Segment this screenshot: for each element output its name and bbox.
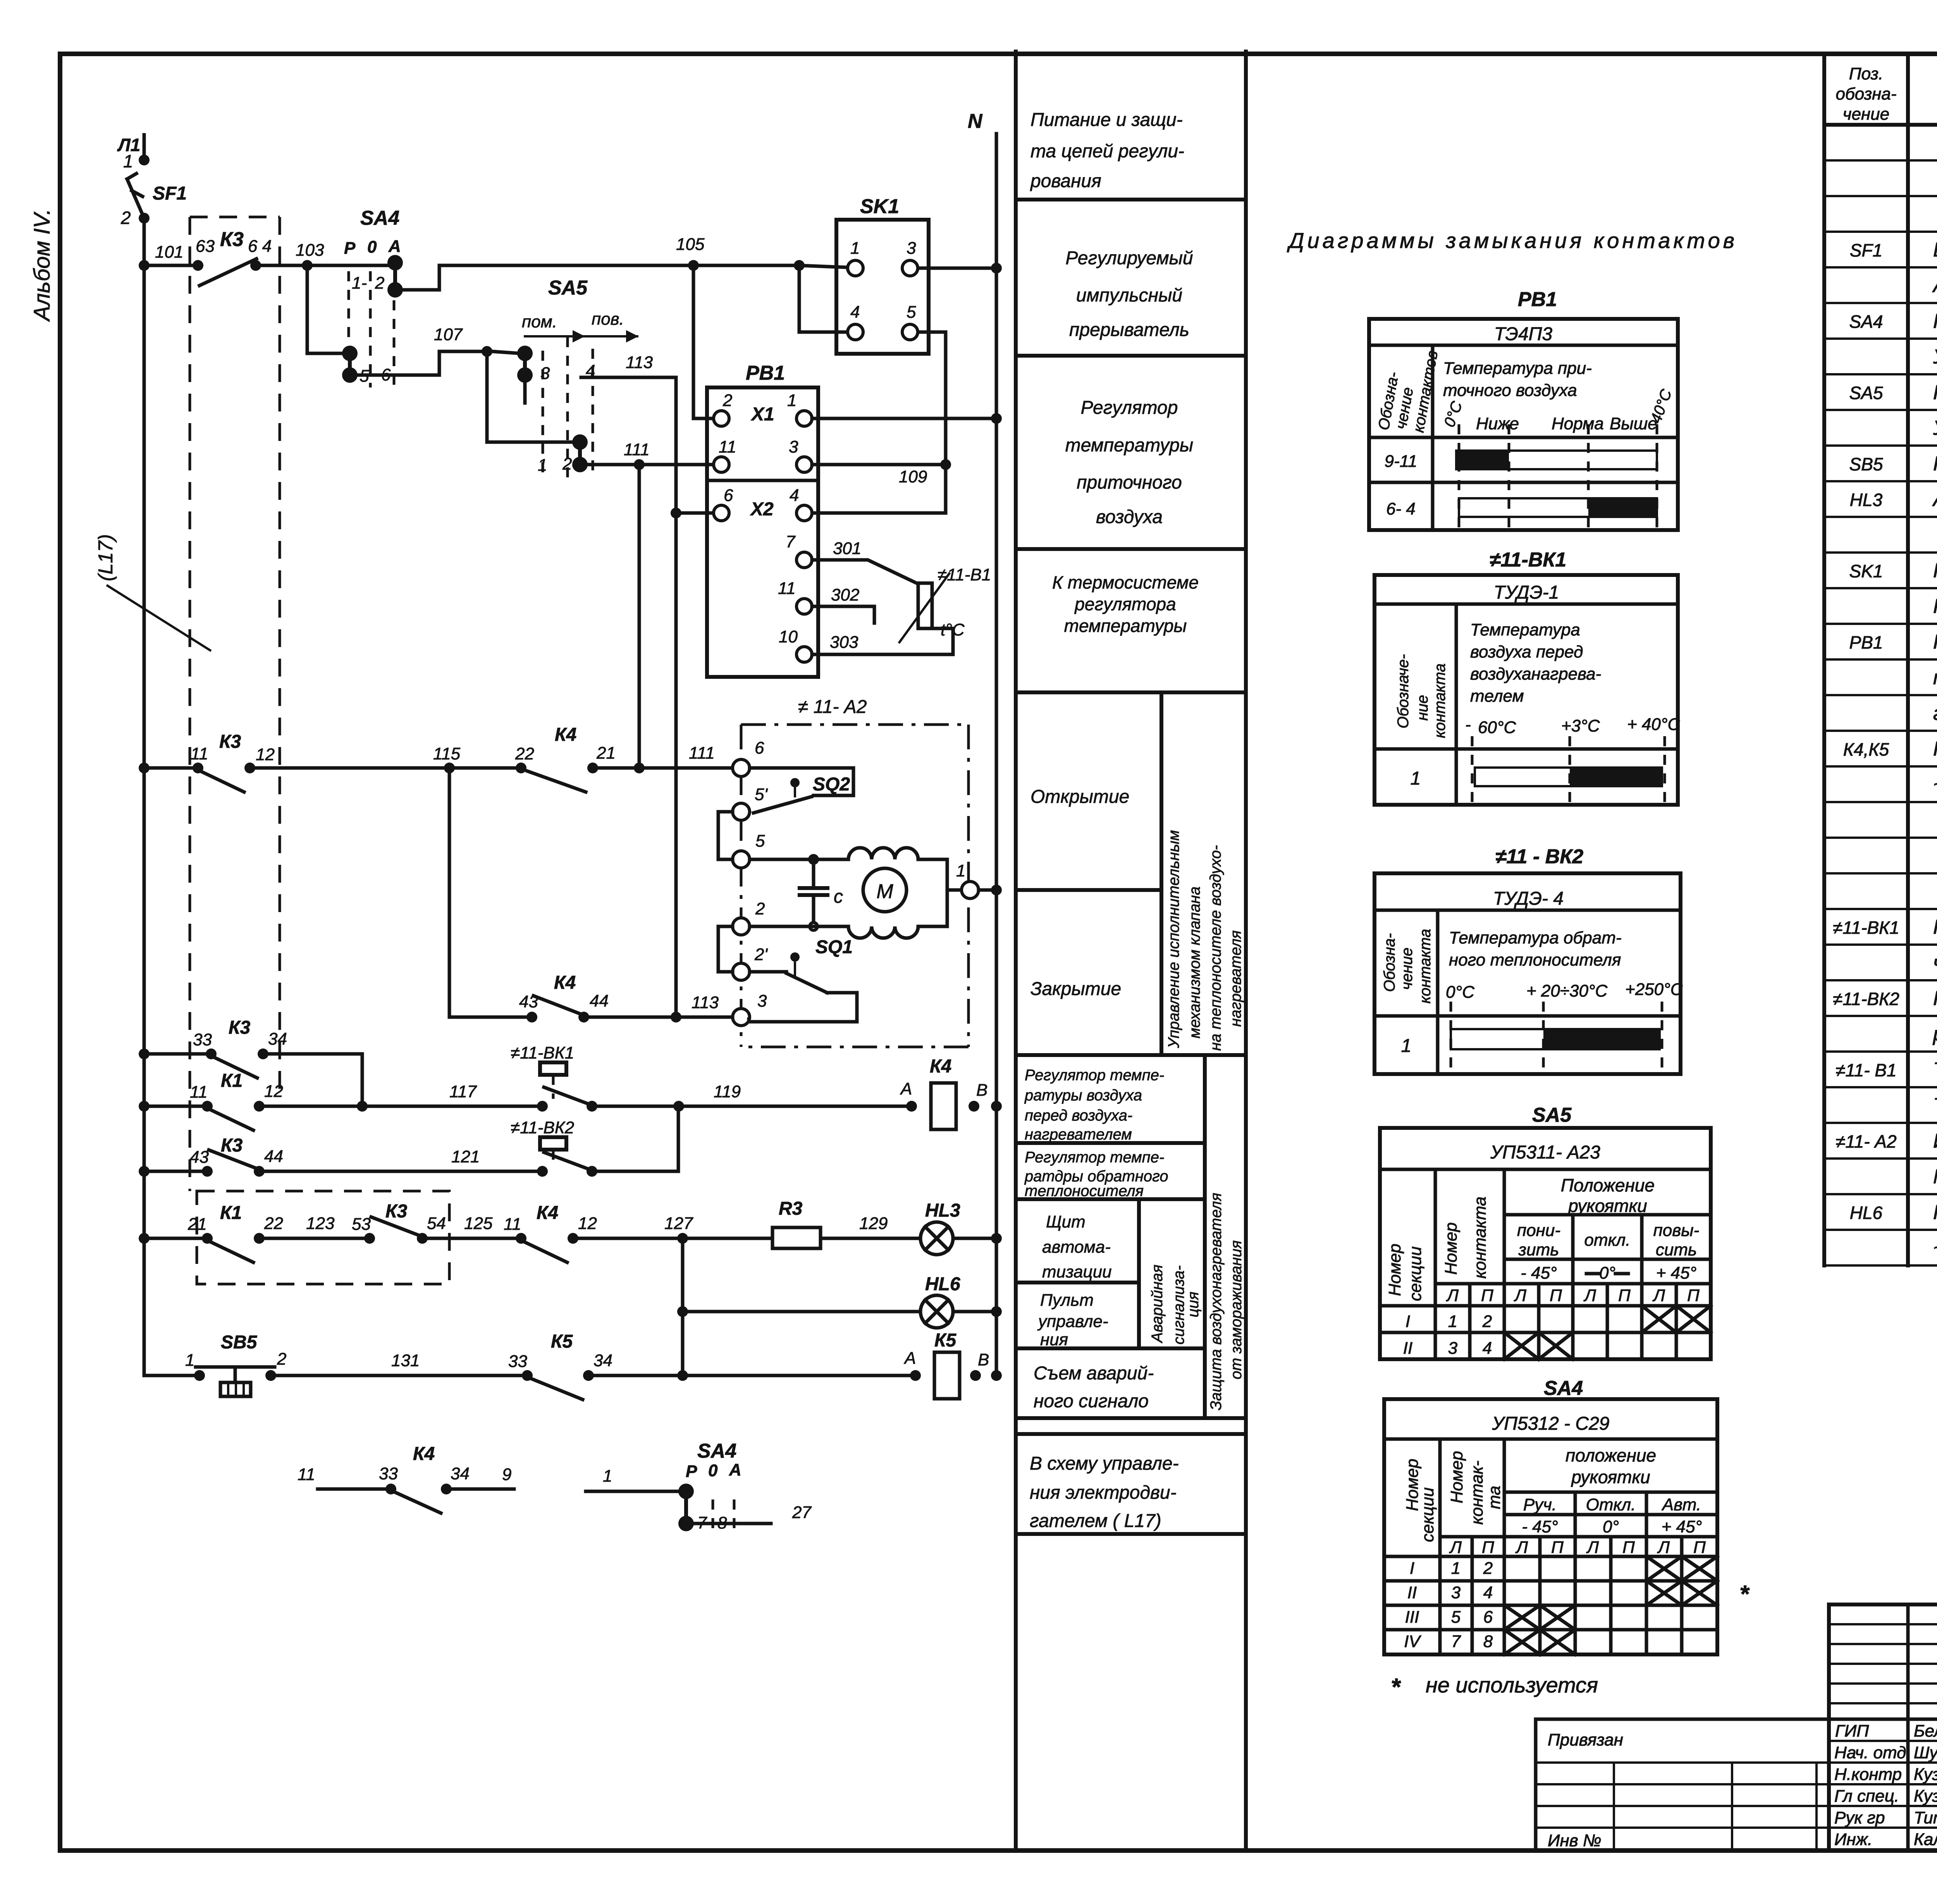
svg-text:с: с — [834, 887, 843, 907]
parts row 26 — [1932, 1023, 1937, 1045]
wire 113 riser — [674, 377, 678, 1017]
svg-text:не используется: не используется — [1426, 1673, 1598, 1697]
relay coil K5 — [903, 1330, 989, 1399]
svg-text:Л: Л — [1446, 1286, 1459, 1305]
svg-text:3: 3 — [1448, 1339, 1458, 1358]
svg-text:123: 123 — [306, 1214, 335, 1233]
svg-text:43: 43 — [190, 1148, 209, 1167]
svg-text:П: П — [1618, 1286, 1631, 1305]
node capacitor top — [808, 854, 819, 865]
svg-text:117: 117 — [449, 1082, 477, 1101]
contact K5 33-34 — [508, 1331, 612, 1400]
wire SK1 pin5 riser — [919, 332, 946, 465]
svg-text:SF1: SF1 — [153, 183, 187, 204]
signature rows — [1834, 1722, 1937, 1849]
terminal 2' — [733, 963, 750, 980]
relay PB1 connector box — [707, 362, 818, 677]
svg-text:≠11- А2: ≠11- А2 — [1836, 1131, 1896, 1152]
parts row 4 — [1850, 239, 1937, 261]
svg-text:П: П — [1482, 1538, 1494, 1557]
svg-text:X2: X2 — [750, 499, 774, 520]
svg-text:К1: К1 — [220, 1203, 242, 1223]
wire 117 — [265, 1105, 537, 1108]
svg-text:приточного: приточного — [1077, 472, 1182, 493]
node 111-riser join — [634, 763, 645, 773]
svg-text:УП5311 - А23У3: УП5311 - А23У3 — [1933, 417, 1937, 439]
contact K4 43-44 — [519, 973, 609, 1023]
parts row 10 — [1849, 453, 1937, 475]
contact K1 21-22 — [188, 1203, 283, 1262]
svg-text:*: * — [1739, 1581, 1750, 1608]
svg-text:прерыватель: прерыватель — [1069, 320, 1189, 340]
svg-text:6: 6 — [1483, 1608, 1493, 1627]
svg-text:воздуха перед: воздуха перед — [1470, 642, 1583, 661]
wire 105 drop to X1 pin 2 — [693, 265, 714, 418]
node X2-6 branch — [671, 508, 681, 518]
svg-text:1: 1 — [123, 151, 133, 171]
svg-text:пони-: пони- — [1517, 1221, 1560, 1240]
wire row 43 K3 44 121 — [139, 1166, 202, 1177]
svg-text:SF1: SF1 — [1850, 240, 1882, 260]
dashed group box K1 K3 — [197, 1191, 449, 1284]
resistor R3 — [772, 1198, 821, 1248]
svg-text:SA4: SA4 — [1544, 1377, 1583, 1400]
svg-text:4: 4 — [850, 303, 860, 322]
parts row 8 — [1849, 381, 1937, 404]
svg-text:П: П — [1693, 1538, 1706, 1557]
bypass loop 2-2prime — [718, 926, 733, 972]
svg-text:125: 125 — [464, 1214, 493, 1233]
label: регулятор температуры приточного воздуха — [1065, 398, 1194, 527]
svg-text:зить: зить — [1518, 1240, 1559, 1259]
svg-text:X1: X1 — [750, 404, 774, 425]
parts row 13 — [1849, 559, 1937, 582]
svg-text:11: 11 — [504, 1215, 521, 1234]
parts row 14 — [1933, 595, 1937, 618]
svg-text:Номер: Номер — [1385, 1244, 1404, 1296]
parts row 5 — [1932, 274, 1937, 297]
svg-text:Пульт: Пульт — [1040, 1291, 1094, 1310]
svg-text:та: та — [1485, 1486, 1504, 1509]
svg-text:43: 43 — [519, 992, 538, 1011]
svg-text:УП5311- А23: УП5311- А23 — [1490, 1142, 1600, 1163]
svg-text:Л: Л — [1652, 1286, 1665, 1305]
svg-text:Кнопка КЕ 011У3, красный, исп: Кнопка КЕ 011У3, красный, исполнение 5 — [1933, 453, 1937, 475]
svg-text:34: 34 — [451, 1464, 470, 1483]
parts table frame — [1824, 54, 1937, 1265]
node SK1 feed — [794, 260, 805, 271]
svg-text:1-: 1- — [352, 274, 367, 293]
svg-text:Белоус: Белоус — [1914, 1722, 1937, 1740]
svg-text:121: 121 — [451, 1147, 480, 1166]
svg-text:44: 44 — [590, 992, 609, 1011]
wire 123 — [265, 1237, 364, 1240]
svg-text:Регулируемый импульсный прер: Регулируемый импульсный прерыватель — [1933, 559, 1937, 582]
svg-text:та цепей регули-: та цепей регули- — [1030, 141, 1184, 162]
wire 119 — [597, 1105, 906, 1108]
wire 115 riser — [448, 768, 451, 1017]
svg-text:П: П — [1481, 1286, 1493, 1305]
svg-text:Рук гр: Рук гр — [1834, 1808, 1885, 1827]
svg-text:нагревателя: нагревателя — [1227, 930, 1244, 1027]
svg-text:11: 11 — [190, 1083, 208, 1102]
label: защита воздухонагревателя от замораживания (rotated) — [1208, 1193, 1245, 1410]
svg-text:HL3: HL3 — [925, 1200, 960, 1221]
parts row 14 — [1933, 595, 1937, 618]
thermostat contact 11-BK1 — [511, 1043, 597, 1112]
svg-text:≠11-ВК1: ≠11-ВК1 — [1490, 549, 1566, 571]
parts row 11 — [1850, 488, 1937, 511]
parts row 32 — [1933, 1237, 1937, 1259]
svg-text:109: 109 — [899, 467, 927, 486]
svg-text:Инв №: Инв № — [1548, 1831, 1602, 1850]
wire terminal 1 to N — [979, 888, 996, 892]
svg-text:ТСМ- 0879, градуировка 50м: ТСМ- 0879, градуировка 50м — [1933, 1094, 1937, 1117]
svg-text:К5: К5 — [551, 1331, 573, 1352]
svg-text:~ 220В: ~ 220В — [1933, 1237, 1937, 1259]
node N top — [991, 263, 1002, 274]
svg-text:Регулятор: Регулятор — [1081, 398, 1178, 418]
svg-text:2: 2 — [120, 208, 131, 228]
svg-text:Титов: Титов — [1914, 1808, 1937, 1827]
svg-text:УП5312 - С29У3: УП5312 - С29У3 — [1933, 346, 1937, 368]
node 103 — [302, 260, 313, 271]
svg-text:1: 1 — [1411, 768, 1421, 789]
svg-text:ГИП: ГИП — [1835, 1722, 1869, 1740]
svg-text:5': 5' — [755, 785, 768, 804]
lamp HL3 — [920, 1200, 960, 1255]
svg-text:А: А — [729, 1460, 741, 1479]
svg-text:22: 22 — [264, 1214, 283, 1233]
svg-text:К4,К5: К4,К5 — [1843, 739, 1889, 759]
svg-text:0°: 0° — [1603, 1517, 1619, 1536]
diagram table PB1 — [1369, 288, 1678, 530]
svg-text:105: 105 — [676, 235, 705, 254]
svg-text:ТУДЭ- 4: ТУДЭ- 4 — [1493, 888, 1564, 909]
svg-text:Обозначе-: Обозначе- — [1395, 654, 1412, 728]
svg-text:2: 2 — [562, 454, 572, 473]
parts row 19 — [1933, 773, 1937, 796]
svg-text:+ 45°: + 45° — [1662, 1517, 1702, 1536]
svg-text:ного сигнало: ного сигнало — [1034, 1391, 1149, 1412]
svg-text:К3: К3 — [385, 1201, 408, 1222]
svg-text:Исполнительный механизм: Исполнительный механизм — [1933, 1130, 1937, 1152]
wire terminal 5 to winding — [750, 858, 848, 861]
wire 111 — [585, 463, 714, 467]
svg-text:12: 12 — [256, 745, 275, 764]
svg-text:12: 12 — [578, 1214, 597, 1233]
parts row 25 — [1833, 987, 1937, 1010]
svg-text:РИП - 2м, ~220В: РИП - 2м, ~220В — [1933, 595, 1937, 618]
switch SA4 lower contact 5-6 — [342, 346, 391, 386]
svg-text:HL6: HL6 — [925, 1274, 960, 1295]
svg-text:4: 4 — [1483, 1339, 1492, 1358]
parts row 23 — [1833, 916, 1937, 938]
parts row 27 — [1836, 1059, 1937, 1081]
diagram table 11-BK1 — [1374, 549, 1680, 805]
svg-text:0°С: 0°С — [1446, 983, 1475, 1002]
wire 33-34 jog down — [268, 1054, 362, 1106]
svg-text:Переключатель универсальный: Переключатель универсальный — [1933, 381, 1937, 404]
svg-text:34: 34 — [268, 1029, 287, 1048]
contact K3 11-12 — [191, 732, 275, 792]
svg-text:107: 107 — [434, 325, 463, 344]
parts row 14 — [1933, 595, 1937, 618]
svg-text:4: 4 — [790, 486, 799, 505]
switch SA4 main contact — [344, 207, 403, 387]
svg-text:ния: ния — [1040, 1330, 1068, 1349]
label: щит автоматизации — [1042, 1212, 1112, 1281]
node N at K4 — [991, 1101, 1002, 1112]
wire 127 riser — [681, 1238, 685, 1375]
parts row 31 — [1850, 1201, 1937, 1224]
node N at X1-1 — [991, 413, 1002, 424]
title block frame — [1829, 1604, 1937, 1851]
wire 121 riser to 119 — [597, 1112, 678, 1171]
svg-text:1: 1 — [850, 239, 860, 258]
svg-text:101: 101 — [155, 243, 183, 262]
svg-text:рования: рования — [1030, 171, 1101, 191]
switch diagram table SA4 — [1384, 1377, 1750, 1654]
wire 127 — [578, 1237, 772, 1240]
diagram table 11-BK2 — [1374, 845, 1683, 1074]
svg-text:SQ2: SQ2 — [813, 774, 850, 795]
attachment strip — [1536, 1719, 1829, 1851]
svg-text:129: 129 — [859, 1214, 888, 1233]
parts row 25 — [1833, 987, 1937, 1010]
parts table header — [1836, 64, 1937, 124]
node N bottom — [991, 1370, 1002, 1381]
svg-text:на теплоносителе воздухо-: на теплоносителе воздухо- — [1207, 845, 1224, 1051]
parts row 24 — [1933, 952, 1937, 974]
contact K3 43-44 — [190, 1135, 283, 1177]
function column frame — [1016, 52, 1246, 1851]
svg-text:механизмом клапана: механизмом клапана — [1186, 887, 1203, 1038]
svg-text:≠11- В1: ≠11- В1 — [1836, 1060, 1896, 1080]
svg-text:1: 1 — [538, 456, 547, 475]
contact K3 53-54 — [352, 1201, 446, 1244]
wire HL6 row — [683, 1310, 920, 1314]
svg-text:Закрытие: Закрытие — [1030, 979, 1121, 999]
svg-text:ция: ция — [1185, 1292, 1202, 1317]
svg-text:рический ТУДЭ-4, 0°.±250°С , ~: рический ТУДЭ-4, 0°.±250°С , ~220В — [1932, 1023, 1937, 1045]
attachment strip — [1536, 1719, 1829, 1851]
svg-text:11: 11 — [778, 579, 796, 598]
wire to SK1 pin4 — [799, 265, 847, 332]
svg-text:Регулируемый: Регулируемый — [1065, 248, 1193, 269]
svg-text:перед воздуха-: перед воздуха- — [1025, 1107, 1132, 1124]
wire left bus — [143, 218, 146, 1375]
svg-text:Л: Л — [1515, 1538, 1528, 1557]
svg-text:1: 1 — [1401, 1036, 1412, 1056]
svg-text:II: II — [1403, 1339, 1412, 1358]
leader line for (L17) — [107, 585, 211, 651]
wires winding to terminal 1 — [918, 859, 947, 926]
motor winding bottom — [848, 926, 918, 938]
parts row 26 — [1932, 1023, 1937, 1045]
svg-text:3: 3 — [757, 992, 767, 1011]
svg-text:21: 21 — [596, 744, 616, 763]
parts row 15 — [1849, 631, 1937, 653]
svg-text:К3: К3 — [220, 228, 244, 251]
svg-text:В: В — [978, 1350, 989, 1369]
svg-text:А: А — [388, 237, 401, 256]
svg-text:60°С: 60°С — [1478, 718, 1517, 737]
svg-text:регулятора: регулятора — [1074, 594, 1176, 614]
svg-text:9-11: 9-11 — [1385, 452, 1417, 471]
node 119 — [673, 1101, 684, 1112]
svg-text:≠11-ВК2: ≠11-ВК2 — [511, 1118, 574, 1137]
svg-text:нагревателем: нагревателем — [1025, 1126, 1132, 1143]
parts row 11 — [1850, 488, 1937, 511]
contact K3 63-64 — [193, 237, 272, 286]
svg-text:Н.контр: Н.контр — [1834, 1765, 1902, 1784]
svg-text:импульсный: импульсный — [1076, 285, 1182, 306]
node L1 power entry — [117, 135, 150, 171]
svg-text:+ 40°С: + 40°С — [1627, 715, 1680, 734]
bus N — [968, 110, 996, 1375]
svg-text:Л: Л — [1583, 1286, 1596, 1305]
svg-text:повы-: повы- — [1653, 1221, 1700, 1240]
parts row 17 — [1933, 702, 1937, 725]
svg-text:33: 33 — [193, 1030, 212, 1049]
svg-text:контак-: контак- — [1467, 1460, 1486, 1525]
label: в схему управления электродвигателем — [1030, 1453, 1179, 1531]
svg-text:Регулятор температуры дилато: Регулятор температуры дилатометри- — [1933, 916, 1937, 938]
svg-text:6- 4: 6- 4 — [1386, 499, 1416, 518]
label: питание и защита — [1030, 110, 1184, 191]
svg-text:8: 8 — [1483, 1632, 1493, 1651]
svg-text:К4: К4 — [554, 973, 576, 993]
svg-text:3: 3 — [789, 437, 798, 456]
terminal 5 — [733, 851, 750, 868]
parts row 23 — [1833, 916, 1937, 938]
svg-text:3: 3 — [907, 239, 916, 258]
parts row 28 — [1933, 1094, 1937, 1117]
parts row 24 — [1933, 952, 1937, 974]
title block frame — [1829, 1604, 1937, 1851]
svg-text:К5: К5 — [934, 1330, 957, 1351]
svg-text:телем: телем — [1470, 687, 1524, 706]
contact K3 33-34 — [193, 1017, 287, 1078]
svg-text:РВ1: РВ1 — [1849, 632, 1883, 652]
svg-text:R3: R3 — [779, 1198, 803, 1219]
svg-text:чение: чение — [1399, 948, 1416, 990]
svg-text:Регулятор темпе-: Регулятор темпе- — [1025, 1149, 1164, 1166]
svg-text:Температура: Температура — [1470, 620, 1580, 639]
parts row 27 — [1836, 1059, 1937, 1081]
wire 113 to terminal 3 — [589, 1016, 733, 1019]
svg-text:Номер: Номер — [1442, 1222, 1460, 1275]
svg-text:ния электродви-: ния электродви- — [1030, 1482, 1177, 1503]
parts row 19 — [1933, 773, 1937, 796]
svg-text:SQ1: SQ1 — [815, 937, 853, 957]
svg-text:SB5: SB5 — [1849, 454, 1883, 474]
svg-text:6: 6 — [755, 739, 764, 757]
parts row 4 — [1850, 239, 1937, 261]
svg-text:Шунский: Шунский — [1914, 1743, 1937, 1762]
parts row 6 — [1849, 310, 1937, 332]
svg-text:2: 2 — [375, 274, 384, 293]
svg-text:7: 7 — [1451, 1632, 1461, 1651]
svg-text:Р: Р — [344, 239, 356, 258]
parts table header — [1836, 64, 1937, 124]
sensor 11-B1 thermal resistor — [812, 539, 991, 654]
svg-text:7: 7 — [786, 532, 796, 551]
svg-text:- 45°: - 45° — [1522, 1517, 1558, 1536]
parts table frame — [1824, 54, 1937, 1265]
wire 121 — [265, 1170, 537, 1173]
wire 103 drop to SA4 lower contact — [307, 265, 342, 353]
svg-text:4: 4 — [1483, 1583, 1493, 1602]
wire 103 — [261, 264, 390, 267]
svg-text:I: I — [1410, 1559, 1414, 1578]
svg-text:Инж.: Инж. — [1834, 1830, 1872, 1849]
svg-text:температуры: температуры — [1065, 435, 1194, 456]
svg-text:IV: IV — [1404, 1632, 1421, 1651]
svg-text:302: 302 — [831, 585, 859, 604]
parts row 16 — [1933, 666, 1937, 689]
node 109 — [940, 459, 951, 470]
parts row 18 — [1843, 738, 1937, 760]
parts row 5 — [1932, 274, 1937, 297]
label: регулируемый импульсный прерыватель — [1065, 248, 1193, 340]
svg-text:~220В, 2з +2р: ~220В, 2з +2р — [1933, 773, 1937, 796]
parts row 17 — [1933, 702, 1937, 725]
dashed cabinet boundary left — [189, 217, 191, 1191]
parts row 13 — [1849, 559, 1937, 582]
bypass loop 5prime-5 — [718, 812, 733, 859]
parts row 6 — [1849, 310, 1937, 332]
parts row 31 — [1850, 1201, 1937, 1224]
svg-text:воздуханагрева-: воздуханагрева- — [1470, 665, 1601, 683]
svg-text:301: 301 — [833, 539, 861, 558]
label: управление исполнительным механизмом (rotated) — [1165, 830, 1244, 1051]
svg-text:SA4: SA4 — [1849, 312, 1883, 332]
wire to SK1 pin1 — [799, 265, 847, 267]
parts row 18 — [1843, 738, 1937, 760]
svg-text:53: 53 — [352, 1215, 371, 1234]
wire 105 rail — [439, 264, 794, 267]
svg-text:Гл спец.: Гл спец. — [1834, 1787, 1899, 1806]
svg-text:контакта: контакта — [1431, 663, 1448, 738]
svg-text:РВ1: РВ1 — [1518, 288, 1557, 311]
svg-text:автома-: автома- — [1042, 1238, 1111, 1257]
breaker SF1 — [120, 174, 187, 228]
parts row 23 — [1833, 916, 1937, 938]
svg-text:Аварийная: Аварийная — [1149, 1265, 1166, 1343]
svg-text:точного воздуха: точного воздуха — [1443, 381, 1577, 400]
svg-text:Питание и защи-: Питание и защи- — [1030, 110, 1183, 130]
node jog join — [357, 1101, 368, 1112]
svg-text:контакта: контакта — [1471, 1196, 1490, 1279]
svg-text:Норма: Норма — [1552, 414, 1604, 433]
label: аварийная сигнализация (rotated) — [1149, 1265, 1202, 1345]
svg-text:111: 111 — [689, 744, 715, 763]
terminal 5' — [733, 803, 750, 820]
parts row 13 — [1849, 559, 1937, 582]
svg-text:+ 45°: + 45° — [1656, 1264, 1696, 1283]
svg-text:Авт.: Авт. — [1661, 1495, 1701, 1514]
svg-text:HL6: HL6 — [1850, 1203, 1883, 1223]
svg-text:Откл.: Откл. — [1586, 1495, 1636, 1514]
wire 107 drop to SA5 lower — [487, 357, 575, 442]
svg-text:УП5312 - С29: УП5312 - С29 — [1492, 1413, 1610, 1434]
parts row 16 — [1933, 666, 1937, 689]
svg-text:Выключатель автоматический: Выключатель автоматический — [1933, 239, 1937, 261]
switch diagram table SA5 — [1380, 1104, 1711, 1359]
parts row 10 — [1849, 453, 1937, 475]
